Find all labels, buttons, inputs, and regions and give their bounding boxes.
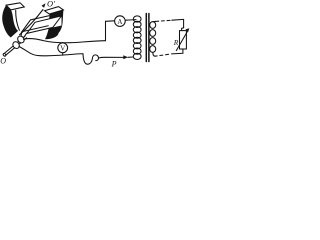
svg-text:V: V — [60, 45, 66, 53]
transformer secondary coil — [150, 22, 156, 53]
magnet left pole inner face line — [16, 10, 20, 30]
secondary bottom dashed wire — [155, 54, 169, 56]
magnet left pole body — [2, 5, 18, 37]
magnet right pole top face — [45, 7, 64, 14]
shaft — [4, 36, 27, 56]
wire: ammeter branch — [106, 20, 137, 22]
wire: bottom rail squiggle — [83, 54, 99, 64]
P arrowhead — [123, 55, 128, 59]
voltmeter V — [58, 43, 68, 53]
slip ring upper — [16, 35, 25, 44]
secondary top stub — [153, 20, 156, 22]
voltmeter stub top — [62, 42, 64, 43]
magnet right pole body — [45, 10, 63, 39]
secondary top dashed wire — [156, 20, 172, 21]
voltmeter stub bottom — [62, 53, 64, 56]
svg-text:A: A — [117, 18, 122, 26]
wire: brush to top rail — [23, 39, 105, 43]
armature coil rear turn — [22, 16, 49, 32]
coil gap across right pole — [49, 16, 62, 29]
wire: bottom rail to P arrow — [99, 56, 124, 59]
resistor arrow — [176, 31, 187, 50]
secondary right wire — [182, 19, 184, 30]
svg-text:P: P — [111, 59, 117, 68]
resistor R body — [180, 31, 187, 49]
rotation axis OO' — [20, 10, 44, 35]
resistor bottom wire — [172, 49, 183, 54]
ammeter A — [115, 16, 126, 27]
transformer core — [146, 14, 149, 62]
background — [0, 0, 195, 73]
wire: top rail riser — [105, 21, 107, 40]
transformer primary coil — [133, 16, 141, 60]
svg-text:O: O — [0, 57, 6, 66]
armature coil front turn — [27, 16, 62, 34]
svg-text:R: R — [173, 38, 179, 47]
slip ring lower — [11, 40, 20, 49]
shaft end cap — [3, 53, 7, 57]
axis arrowhead — [42, 3, 46, 8]
wire: brush to bottom rail — [19, 46, 83, 55]
secondary bottom hook — [153, 52, 155, 56]
svg-text:O′: O′ — [47, 0, 55, 9]
magnet left pole top face — [6, 3, 24, 10]
coil lead wires — [21, 32, 27, 38]
